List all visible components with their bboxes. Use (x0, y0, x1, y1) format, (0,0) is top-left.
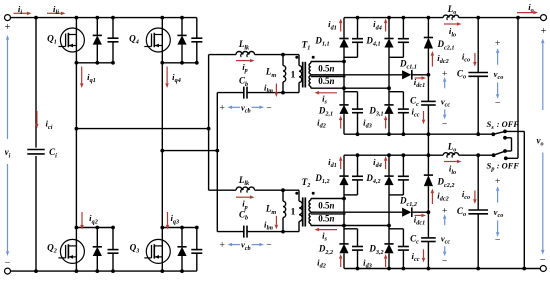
wire Q1 cap column lower (112, 42, 114, 63)
label Sp OFF text (497, 161, 520, 170)
capacitor Q2 snubber (108, 250, 119, 254)
svg-text:−: − (495, 98, 501, 109)
node module1 top rail col2 (387, 16, 391, 20)
wire inner loop (505, 138, 512, 151)
label vcc module1 (441, 96, 451, 108)
node module1 sec bottom junction col2 (387, 86, 391, 90)
label i_lo module2 (449, 164, 456, 176)
capacitor Q4 snubber (191, 38, 202, 42)
wire C_i column lower (35, 156, 37, 271)
label + vco module2 (495, 176, 501, 187)
label + vco module1 (495, 38, 501, 49)
diode D2,1 (339, 105, 348, 114)
wire module2 secondary center tap (311, 211, 402, 213)
node Q4 diode anode (180, 61, 184, 65)
current arrow i_co module2 (473, 190, 477, 204)
inductor Lo module2 (443, 153, 458, 158)
node Q2 rail bottom a (75, 269, 79, 273)
svg-text:−: − (442, 119, 448, 130)
current arrow i_co module1 (473, 53, 477, 67)
label Q3 (130, 243, 140, 255)
svg-text:1: 1 (291, 207, 296, 218)
current arrow i_s module1 (315, 91, 338, 95)
capacitor Q3 snubber (191, 250, 202, 254)
node Q3 drain (160, 226, 164, 230)
label i_p T1 branch (242, 62, 248, 74)
capacitor module2 snubber D2 (352, 247, 363, 251)
svg-text:+: + (495, 176, 501, 187)
diode D4,2 (384, 176, 393, 185)
node rail1 right (207, 127, 211, 131)
node C_i bottom (34, 269, 38, 273)
wire Llk row right T2 branch (255, 189, 299, 191)
wire C_i column upper (35, 18, 37, 148)
node T2 secondary phase dot (312, 192, 315, 195)
label i_dc2 module1 (437, 53, 448, 65)
node Lm top T2 branch (281, 188, 285, 192)
wire module1 column1 bottom (343, 114, 345, 134)
svg-text:0.5n: 0.5n (318, 63, 334, 73)
wire inter-module clamp link (427, 134, 429, 155)
wire module2 Co column (477, 155, 479, 268)
wire top input rail (11, 17, 197, 19)
node Sp vertical top (516, 16, 520, 20)
node Q1 diode anode (95, 61, 99, 65)
wire module2 secondary top terminal (311, 198, 344, 200)
voltage arrow vco up module1 (496, 48, 500, 64)
node module2 sec top junction (342, 197, 346, 201)
node module1 bottom rail cap3 (402, 132, 406, 136)
label + vcb T1 branch (219, 102, 225, 113)
voltage arrow vcb left T1 branch (228, 106, 241, 110)
voltage arrow vco down module1 (496, 82, 500, 98)
label Ss OFF (487, 119, 495, 131)
current arrow i_d3 module2 (384, 254, 388, 267)
label i_d1 module1 (328, 19, 337, 31)
capacitor module1 snubber D2 (352, 109, 363, 113)
wire outer vertical to out minus (523, 131, 525, 268)
wire leg B column (161, 18, 163, 272)
node Lm top T1 branch (281, 53, 285, 57)
wire module2 Dc1 to clamp node (413, 211, 429, 213)
node rail1 left (75, 127, 79, 131)
label - vcc module1 (442, 119, 448, 130)
svg-text:−: − (5, 257, 11, 268)
capacitor module1 snubber D1 (352, 39, 363, 43)
label T2 (302, 177, 311, 189)
node Q1 source (75, 61, 79, 65)
current arrow i_lm T1 branch (275, 84, 279, 98)
label i_d3 module1 (363, 117, 372, 129)
node Q1 cell rail cap (111, 61, 115, 65)
node Q3 rail bottom a (160, 269, 164, 273)
node Q4 source (160, 61, 164, 65)
svg-text:0.5n: 0.5n (318, 76, 334, 86)
current arrow i_lo module2 (444, 160, 462, 163)
label i_d3 module2 (363, 257, 372, 269)
label T2 turns 0.5n lower (318, 214, 334, 224)
label i_q2 (89, 213, 98, 225)
wire Llk row right T1 branch (255, 54, 299, 56)
node module1 bottom rail clamp (427, 132, 431, 136)
wire Q3 cell drain rail (162, 227, 197, 229)
node module2 top rail cap3 (402, 153, 406, 157)
wire module2 column2 mid (388, 185, 390, 244)
wire Cb row left T1 branch (217, 92, 244, 94)
node Ss blade tip (503, 130, 507, 134)
wire Q4 diode column upper (181, 18, 183, 36)
wire Q1 cell source rail (76, 62, 113, 64)
wire Lm column top T1 branch (282, 55, 284, 66)
label i_d1 module2 (328, 157, 337, 169)
wire Q2 diode column lower (96, 256, 98, 271)
current arrow i_q1 (80, 67, 84, 89)
wire module2 cap3 stub (389, 194, 403, 196)
node Sp pivot (492, 153, 496, 157)
wire module1 cap1 column (357, 18, 359, 58)
node module1 top rail Co (476, 16, 480, 20)
wire module2 cap1 column (357, 155, 359, 195)
node output negative terminal (540, 266, 546, 272)
voltage arrow vco up module2 (496, 186, 500, 202)
node Q1 rail top a (75, 16, 79, 20)
node Lm bottom T1 branch (281, 91, 285, 95)
diode Dc2,1 (424, 38, 433, 49)
wire Ss tip to outer vertical (505, 130, 524, 132)
capacitor C_i (27, 150, 44, 154)
voltage arrow vcc up module1 (443, 77, 447, 88)
transformer T1 core (303, 62, 306, 88)
label Cc module1 (410, 96, 419, 108)
wire module2 column1 bottom (343, 253, 345, 268)
node input negative terminal (5, 268, 11, 274)
node module2 bottom rail cap1 (356, 267, 360, 271)
label i_lo module1 (449, 26, 456, 38)
current arrow i_d1 module2 (339, 156, 343, 169)
wire module1 secondary center tap (311, 74, 402, 76)
wire module1 clamp column bottom (427, 105, 429, 134)
label i_q4 (172, 72, 181, 84)
wire Q1 diode column lower (96, 45, 98, 63)
node rail2 right (215, 149, 219, 153)
current arrow i_ci (35, 111, 39, 129)
node module1 bottom rail cap1 (356, 132, 360, 136)
label Co module1 (457, 69, 466, 81)
wire Cb row right T1 branch (247, 92, 299, 94)
node Q4 rail top a (160, 16, 164, 20)
node module2 sec bottom junction col2 (387, 224, 391, 228)
node module2 top rail col2 (387, 153, 391, 157)
label T1 turns 0.5n lower (318, 76, 334, 86)
label Cc module2 (410, 234, 419, 246)
node module1 bottom rail col2 (387, 132, 391, 136)
node module1 bottom rail Co (476, 132, 480, 136)
label + vcc module1 (442, 68, 448, 79)
current arrow i_lo module1 (444, 22, 462, 26)
label i_lm T1 branch (264, 82, 273, 94)
wire vertical A-prime (208, 55, 210, 191)
svg-text:−: − (495, 235, 501, 246)
capacitor module1 snubber D3 (398, 109, 409, 113)
node Ss fixed contact (503, 136, 507, 140)
label i_cc module2 (412, 251, 420, 263)
transformer T2 secondary winding upper (309, 199, 311, 213)
label i_dc1 module2 (414, 214, 425, 226)
voltage arrow vcc up module2 (443, 214, 447, 225)
label - output (540, 255, 546, 266)
node outer vertical bottom (522, 267, 526, 271)
current arrow i_d2 module1 (339, 116, 343, 129)
diode Q3 body (177, 247, 186, 256)
current arrow i_d4 module2 (384, 156, 388, 169)
transformer T2 core (303, 197, 306, 226)
node module2 sec bottom junction col1 (342, 224, 346, 228)
node T1 primary phase dot (295, 56, 298, 59)
wire module1 cap3 stub (389, 56, 403, 58)
current arrow i_q2 (80, 212, 84, 230)
node module1 top rail clamp (427, 16, 431, 20)
current arrow i_d1 module1 (339, 19, 343, 32)
label i_s module2 (322, 231, 327, 243)
diode Dc2,2 (424, 175, 433, 186)
label vcb T1 branch (241, 102, 251, 114)
label i_d2 module2 (317, 257, 326, 269)
label Cb T1 branch (239, 76, 248, 88)
node Q3 cell rail cap (195, 226, 199, 230)
label vcc module2 (441, 233, 451, 245)
label v_o (536, 135, 543, 147)
node module1 top rail cap3 (402, 16, 406, 20)
label Dc1,2 (399, 196, 417, 208)
label Dc2,1 (437, 39, 455, 51)
capacitor Cc module2 (421, 238, 436, 242)
label C_i (49, 147, 57, 159)
wire module2 column1 mid (343, 185, 345, 244)
node Q2 cell rail cap (111, 226, 115, 230)
wire module1 cap2 column (357, 92, 359, 135)
transformer T2 secondary winding lower (309, 212, 311, 225)
svg-text:+: + (495, 38, 501, 49)
node Q1 rail top c (111, 16, 115, 20)
svg-text:−: − (540, 255, 546, 266)
wire module2 clamp column top (427, 155, 429, 175)
capacitor Co module2 (468, 210, 488, 214)
current arrow i_q3 (166, 212, 169, 230)
wire module2 secondary center tap lower (311, 213, 346, 215)
current arrow i_dc2 module2 (431, 189, 435, 205)
wire module1 cap4 stub (389, 91, 403, 93)
wire Lm column top T2 branch (282, 190, 284, 201)
label i_dc2 module2 (437, 191, 448, 203)
wire Q4 cap column lower (196, 42, 198, 63)
wire module1 secondary center tap lower (311, 76, 346, 78)
label - vcb T1 branch (266, 102, 272, 113)
node input positive terminal (5, 15, 11, 21)
label i_lm T2 branch (264, 220, 273, 232)
node Ss pivot (491, 132, 495, 136)
svg-text:1: 1 (291, 70, 296, 81)
node Q2 rail bottom b (95, 269, 99, 273)
label D1,1 (314, 36, 329, 48)
svg-text:+: + (219, 102, 225, 113)
label i_p T2 branch (242, 199, 248, 211)
wire module2 cap4 stub (389, 228, 403, 230)
wire module1 Dc1 to clamp node (413, 74, 429, 76)
wire module2 cap2 stub (344, 228, 358, 230)
label i_o (528, 2, 534, 14)
current arrow i_dc1 module1 (415, 76, 427, 80)
diode D3,2 (384, 244, 393, 253)
node output positive terminal (541, 15, 547, 21)
wire Llk row left T2 branch (209, 189, 236, 191)
label - vco module1 (495, 98, 501, 109)
diode Dc1,2 (402, 207, 412, 217)
capacitor Co module1 (468, 73, 488, 77)
diode D3,1 (384, 105, 393, 114)
wire module1 cap1 stub (344, 56, 358, 58)
wire module2 cap4 column (402, 229, 404, 269)
label - input (5, 257, 11, 268)
wire module1 cap4 column (402, 92, 404, 135)
label i_co module2 (462, 189, 470, 201)
wire Q4 cell source rail (162, 62, 197, 64)
wire Sp contact to vertical (506, 157, 518, 159)
label Llk T1 branch (238, 39, 250, 51)
node module1 sec bottom junction col1 (342, 86, 346, 90)
wire module1 column1 mid (343, 48, 345, 105)
node T2 primary phase dot (295, 192, 298, 195)
current arrow i_p T1 branch (236, 59, 255, 63)
wire module1 secondary bottom terminal (311, 87, 389, 89)
svg-text:+: + (541, 26, 547, 37)
label Lo module1 (447, 4, 457, 16)
voltage arrow vco down module2 (496, 221, 500, 237)
label T2 turns 0.5n upper (318, 200, 334, 210)
voltage arrow vcc down module1 (443, 109, 447, 119)
node Q3 diode cathode (180, 226, 184, 230)
voltage arrow vcb right T2 branch (252, 243, 265, 247)
node module2 top rail cap1 (356, 153, 360, 157)
wire Q3 cap column upper (196, 228, 198, 250)
wire module1 secondary top terminal (311, 61, 344, 63)
label i_co module1 (462, 52, 470, 64)
label i_dc1 module1 (414, 77, 425, 89)
node Q2 diode cathode (95, 226, 99, 230)
capacitor module2 snubber D3 (398, 247, 409, 251)
label D3,1 (368, 105, 383, 117)
wire Lm column bottom T2 branch (282, 217, 284, 231)
current arrow i_d2 module2 (339, 254, 343, 267)
diode D4,1 (384, 39, 393, 48)
label i_i (18, 4, 22, 16)
wire module2 cap2 column (357, 229, 359, 269)
svg-text:−: − (266, 102, 272, 113)
node module1 sec top junction (342, 60, 346, 64)
voltage arrow v_i up (6, 35, 9, 139)
voltage arrow vcb left T2 branch (228, 243, 241, 247)
label D2,2 (318, 244, 333, 256)
label D4,2 (365, 173, 380, 185)
label vcb T2 branch (241, 240, 251, 252)
current arrow i_cc module2 (422, 249, 425, 262)
node Q4 cell rail cap (195, 61, 199, 65)
label i_cc module1 (412, 106, 420, 118)
capacitor Cc module1 (421, 101, 436, 105)
wire Q2 cap column lower (112, 253, 114, 271)
transistor Q1 (58, 28, 84, 52)
current arrow i_i (14, 12, 32, 16)
wire Q3 diode column upper (181, 228, 183, 247)
inductor Llk T1 branch (236, 51, 255, 57)
label i_s module1 (322, 93, 327, 105)
label + vcc module2 (442, 205, 448, 216)
node Q4 rail top b (180, 16, 184, 20)
wire Q2 cell drain rail (76, 227, 113, 229)
label - vco module2 (495, 235, 501, 246)
label Lo module2 (447, 141, 457, 153)
voltage arrow v_o up (541, 39, 545, 111)
node module1 clamp node (427, 73, 431, 77)
label + vcb T2 branch (219, 240, 225, 251)
node T1 secondary phase dot (312, 56, 315, 59)
inductor Lo module1 (443, 15, 458, 20)
wire vertical B-prime (216, 93, 218, 232)
node Lm bottom T2 branch (281, 230, 285, 234)
label T1 (302, 39, 311, 51)
switch Sp blade (494, 151, 505, 155)
diode Q4 body (177, 35, 186, 44)
node Q1 rail top b (95, 16, 99, 20)
diode Q1 body (93, 35, 102, 44)
capacitor Cb T2 branch (244, 226, 247, 238)
svg-text:+: + (219, 240, 225, 251)
node module2 top rail clamp (427, 153, 431, 157)
current arrow i_dc1 module2 (415, 214, 427, 218)
label Dc2,2 (437, 177, 455, 189)
label Sp OFF (487, 160, 495, 172)
label - vcb T2 branch (266, 240, 272, 251)
wire rail leg A to branch (76, 128, 208, 130)
diode D2,2 (339, 244, 348, 253)
inductor Llk T2 branch (236, 187, 255, 193)
label D1,2 (314, 173, 329, 185)
node Sp fixed contact (504, 156, 508, 160)
wire module2 output top rail right (459, 154, 494, 156)
transformer T1 secondary winding upper (309, 62, 311, 75)
label T2 turns 1 (291, 207, 296, 218)
current arrow i_d4 module1 (384, 19, 388, 32)
wire module2 column2 top (388, 155, 390, 176)
wire Q1 diode column upper (96, 18, 98, 36)
node module2 bottom rail cap3 (402, 267, 406, 271)
wire out minus rail right (524, 268, 540, 270)
label D4,1 (365, 36, 380, 48)
wire Q2 cap column upper (112, 228, 114, 250)
wire Q1 cap column upper (112, 18, 114, 38)
wire module1 output top rail left (344, 17, 443, 19)
wire module2 clamp column mid (427, 186, 429, 238)
svg-text:0.5n: 0.5n (318, 200, 334, 210)
label Cb T2 branch (239, 209, 248, 221)
wire module2 column2 bottom (388, 253, 390, 268)
current arrow i_p T2 branch (236, 195, 255, 199)
svg-text:0.5n: 0.5n (318, 214, 334, 224)
svg-text:: OFF: : OFF (497, 161, 520, 170)
wire module1 clamp column mid (427, 49, 429, 102)
current arrow i_lm T2 branch (275, 216, 279, 230)
voltage arrow v_i down (6, 164, 9, 256)
label Q1 (47, 34, 57, 46)
